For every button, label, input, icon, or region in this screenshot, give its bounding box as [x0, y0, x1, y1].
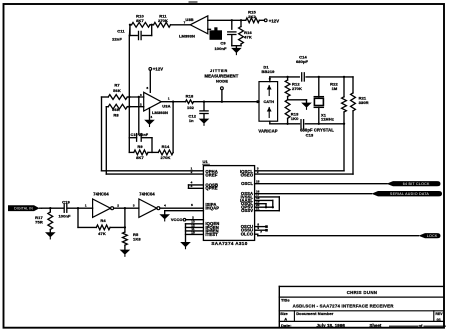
- svg-text:75R: 75R: [35, 219, 43, 224]
- svg-text:74HC04: 74HC04: [93, 191, 109, 196]
- svg-text:R9: R9: [137, 144, 143, 149]
- svg-text:Sheet: Sheet: [370, 323, 382, 328]
- svg-text:Title: Title: [281, 298, 290, 303]
- svg-text:U3B: U3B: [185, 17, 193, 22]
- svg-text:REV: REV: [435, 312, 443, 316]
- svg-text:IHQAP: IHQAP: [205, 205, 219, 210]
- svg-text:R4: R4: [100, 218, 106, 223]
- svg-text:OREF: OREF: [205, 172, 217, 177]
- svg-text:C19: C19: [62, 199, 70, 204]
- svg-text:1: 1: [85, 204, 87, 208]
- svg-text:OSEO: OSEO: [241, 172, 254, 177]
- svg-text:8: 8: [147, 86, 149, 90]
- svg-text:8K7: 8K7: [136, 155, 144, 160]
- svg-text:47K: 47K: [98, 231, 106, 236]
- svg-text:1M: 1M: [332, 86, 338, 91]
- svg-text:1: 1: [168, 96, 170, 100]
- svg-text:01: 01: [437, 318, 441, 322]
- svg-text:VARICAP: VARICAP: [258, 129, 277, 134]
- svg-text:4: 4: [151, 115, 153, 119]
- svg-text:56K: 56K: [112, 107, 120, 112]
- svg-text:11MHz: 11MHz: [321, 117, 334, 122]
- svg-text:LM393N: LM393N: [152, 110, 168, 115]
- svg-text:R7: R7: [114, 83, 120, 88]
- svg-text:9: 9: [257, 226, 259, 230]
- svg-text:270K: 270K: [158, 18, 168, 23]
- svg-text:270K: 270K: [161, 155, 171, 160]
- svg-text:of: of: [419, 323, 424, 328]
- svg-text:NODE: NODE: [216, 78, 228, 83]
- svg-text:100nF: 100nF: [58, 213, 71, 218]
- svg-text:102: 102: [187, 105, 195, 110]
- svg-text:DIGITAL IN: DIGITAL IN: [14, 207, 33, 211]
- svg-text:SAA7274 A310: SAA7274 A310: [211, 241, 247, 246]
- svg-text:ASDI.SCH - SAA7274 INTERFACE R: ASDI.SCH - SAA7274 INTERFACE RECEIVER: [293, 304, 395, 309]
- svg-text:3: 3: [140, 93, 142, 97]
- svg-text:7: 7: [184, 21, 186, 25]
- svg-text:Date:: Date:: [281, 323, 292, 328]
- svg-text:680pF: 680pF: [296, 59, 309, 64]
- svg-text:1K8: 1K8: [133, 237, 141, 242]
- svg-text:22nF: 22nF: [112, 37, 122, 42]
- svg-text:C13: C13: [306, 133, 314, 138]
- svg-text:5: 5: [191, 203, 193, 207]
- svg-text:3: 3: [133, 204, 135, 208]
- svg-text:OSSV: OSSV: [241, 208, 253, 213]
- svg-text:1K0: 1K0: [291, 116, 299, 121]
- svg-text:8K7: 8K7: [136, 18, 144, 23]
- svg-text:OLCO: OLCO: [241, 232, 254, 237]
- svg-text:C11: C11: [117, 28, 125, 33]
- svg-text:R18: R18: [186, 93, 194, 98]
- svg-text:7: 7: [260, 230, 262, 234]
- svg-text:Size: Size: [280, 312, 288, 316]
- svg-text:2: 2: [257, 170, 259, 174]
- svg-text:QPRE: QPRE: [205, 186, 217, 191]
- svg-text:C9: C9: [220, 40, 226, 45]
- svg-text:U3A: U3A: [162, 104, 170, 109]
- svg-text:R8: R8: [113, 112, 119, 117]
- svg-text:VCCO: VCCO: [171, 217, 183, 222]
- svg-text:3: 3: [191, 184, 193, 188]
- svg-text:July 18, 1998: July 18, 1998: [317, 323, 346, 328]
- svg-text:10: 10: [191, 230, 195, 234]
- svg-text:CHRIS DUNN: CHRIS DUNN: [347, 290, 378, 295]
- svg-text:1n: 1n: [189, 118, 194, 123]
- svg-text:U1: U1: [203, 159, 209, 164]
- svg-text:4: 4: [164, 204, 166, 208]
- svg-text:15: 15: [256, 180, 260, 184]
- svg-text:64 BIT CLOCK: 64 BIT CLOCK: [403, 182, 430, 186]
- svg-text:56K: 56K: [113, 88, 121, 93]
- svg-text:330R: 330R: [359, 100, 369, 105]
- svg-text:JITTER: JITTER: [210, 68, 228, 73]
- svg-text:CATH: CATH: [263, 100, 274, 104]
- svg-text:A: A: [284, 316, 287, 321]
- svg-text:OSCL: OSCL: [241, 181, 253, 186]
- svg-text:LM393N: LM393N: [179, 34, 195, 39]
- svg-text:47K: 47K: [244, 35, 252, 40]
- svg-text:100nF: 100nF: [214, 46, 227, 51]
- svg-text:2K2: 2K2: [248, 14, 256, 19]
- svg-text:+12V: +12V: [269, 18, 279, 23]
- svg-text:C10 22nF: C10 22nF: [131, 133, 149, 137]
- svg-text:BB219: BB219: [262, 69, 276, 74]
- svg-text:270K: 270K: [292, 86, 302, 91]
- svg-text:ITEST: ITEST: [205, 232, 218, 237]
- svg-text:2: 2: [140, 103, 142, 107]
- svg-text:2: 2: [191, 170, 193, 174]
- svg-text:+12V: +12V: [153, 67, 163, 72]
- svg-text:74HC04: 74HC04: [139, 191, 155, 196]
- svg-text:R14: R14: [162, 144, 170, 149]
- svg-text:21: 21: [256, 207, 260, 211]
- svg-text:LOCK: LOCK: [427, 234, 438, 238]
- svg-text:2: 2: [117, 204, 119, 208]
- svg-text:SERIAL AUDIO DATA: SERIAL AUDIO DATA: [390, 192, 429, 196]
- svg-text:Document Number: Document Number: [296, 311, 334, 316]
